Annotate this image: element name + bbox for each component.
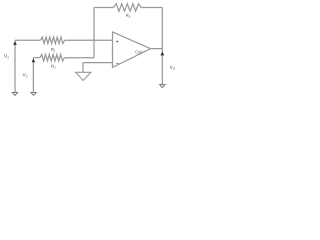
op-amp U1 — [113, 32, 151, 68]
label R2 — [51, 65, 55, 69]
wire ground stem below op-amp — [82, 63, 84, 73]
label V3 — [170, 66, 175, 70]
wire inverting input horizontal — [83, 62, 113, 64]
resistor R3 — [113, 4, 141, 11]
label V1 — [4, 54, 9, 58]
ground G1 — [12, 92, 17, 95]
wire feedback vertical — [93, 8, 95, 58]
wire feedback top right — [141, 7, 162, 9]
label Out — [135, 50, 142, 53]
node V3 arrow — [160, 52, 164, 56]
label R3 — [126, 14, 130, 18]
source arrow V2 — [32, 59, 36, 63]
resistor R1 — [40, 37, 64, 43]
wire R2 to feedback node — [64, 57, 94, 59]
ground G3 — [160, 85, 165, 88]
wire source V2 vertical — [32, 58, 34, 93]
label V2 — [23, 73, 28, 77]
wire feedback top left — [94, 7, 113, 9]
resistor R2 — [40, 55, 65, 61]
source arrow V1 — [13, 41, 17, 45]
wire top input from V1 to R1 — [15, 39, 40, 41]
wire output right vertical — [161, 8, 163, 85]
pin - inverting — [116, 62, 119, 64]
wire V2 to R2 — [33, 57, 40, 59]
ground below op-amp — [76, 72, 91, 80]
wire op-amp output — [151, 48, 163, 50]
pin + noninverting — [116, 40, 118, 42]
wire source V1 vertical — [14, 40, 16, 92]
label R1 — [51, 48, 55, 52]
ground G2 — [31, 92, 36, 95]
wire R1 to op-amp noninverting input — [65, 39, 113, 41]
